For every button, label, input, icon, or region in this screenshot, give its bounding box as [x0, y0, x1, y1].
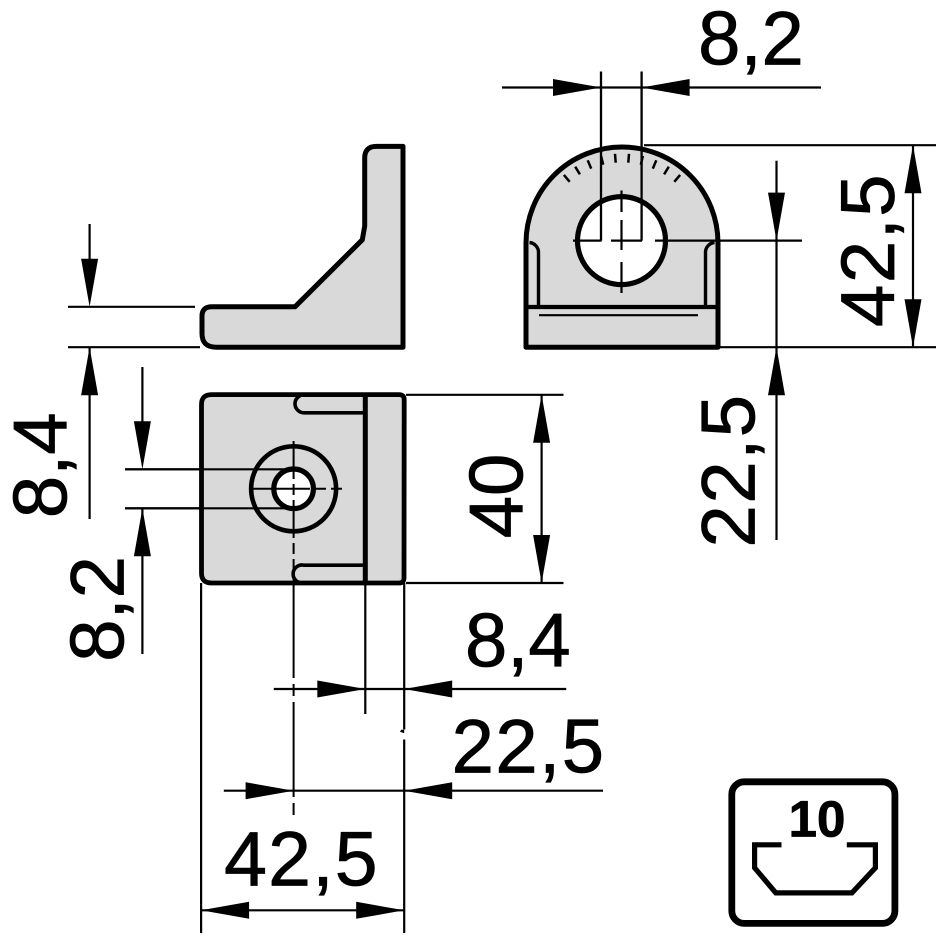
extension lines: hole width 8,2 top: [600, 72, 602, 241]
extension line bottom right (42,5): [718, 346, 936, 348]
dimension 8,4 bottom (leg thickness in top view): [274, 598, 571, 697]
svg-text:8,4: 8,4: [465, 598, 571, 683]
top view: boss circle: [251, 446, 336, 531]
front view: serration tick marks on arch: [564, 154, 680, 182]
front view: vertical centerline of hole: [620, 191, 622, 213]
svg-text:22,5: 22,5: [452, 705, 606, 790]
front view: bracket outline with arched top: [526, 147, 718, 347]
extension line: left edge down: [200, 583, 202, 933]
svg-text:42,5: 42,5: [826, 173, 911, 327]
svg-text:8,4: 8,4: [0, 412, 83, 518]
svg-text:40: 40: [454, 454, 539, 539]
front view: flange thin line: [539, 314, 698, 316]
top view: horizontal centerline: [250, 488, 342, 490]
top view: lower relief slot: [293, 565, 365, 583]
dimension 8,2 left (hole diameter, top view): [56, 367, 293, 662]
front view: right inner wall slot: [705, 243, 714, 308]
front view: flange top line: [528, 305, 716, 309]
side view: L-bracket outline: [202, 146, 403, 347]
extension line: right edge down (with gap): [403, 583, 405, 730]
extension line: leg inner face down: [364, 583, 366, 714]
svg-text:22,5: 22,5: [687, 394, 772, 548]
dimension 8,4 left (leg thickness): [0, 224, 98, 519]
dimension 42,5 right: [826, 145, 922, 347]
svg-text:8,2: 8,2: [698, 0, 804, 82]
top view: vertical leg inner face line: [363, 395, 368, 583]
top view: hole circle: [274, 469, 314, 509]
dimension 22,5 right: [687, 161, 785, 548]
svg-text:8,2: 8,2: [56, 556, 141, 662]
svg-text:10: 10: [789, 791, 846, 848]
groove profile symbol: [755, 845, 876, 893]
groove size icon frame: [732, 782, 895, 924]
dimension 22,5 bottom (hole centre to right edge): [224, 705, 606, 800]
dimension 40 right of top view: [406, 395, 564, 583]
top view: plate outline: [202, 395, 405, 583]
top view: vertical centerline: [293, 441, 295, 583]
front view: horizontal centerline of hole: [573, 240, 602, 242]
extension line: hole centre to right (22,5): [655, 240, 802, 242]
extension line: arch top to right (42,5): [644, 144, 936, 146]
svg-text:42,5: 42,5: [224, 816, 379, 902]
front view: counterbore hole: [578, 197, 666, 285]
dimension 8,2 top: [502, 0, 821, 96]
top view: upper relief slot: [295, 395, 365, 413]
dimension 42,5 bottom (overall width): [201, 816, 404, 918]
small artifact mark on right extension line: [400, 730, 404, 733]
extension line bottom left (8,4): [68, 346, 200, 348]
extension line: top of horizontal leg (8,4): [68, 306, 195, 308]
centerline extension below top view: [293, 583, 295, 818]
front view: left inner wall slot: [530, 243, 539, 308]
extension lines: hole diameter 8,2 left: [125, 468, 292, 470]
